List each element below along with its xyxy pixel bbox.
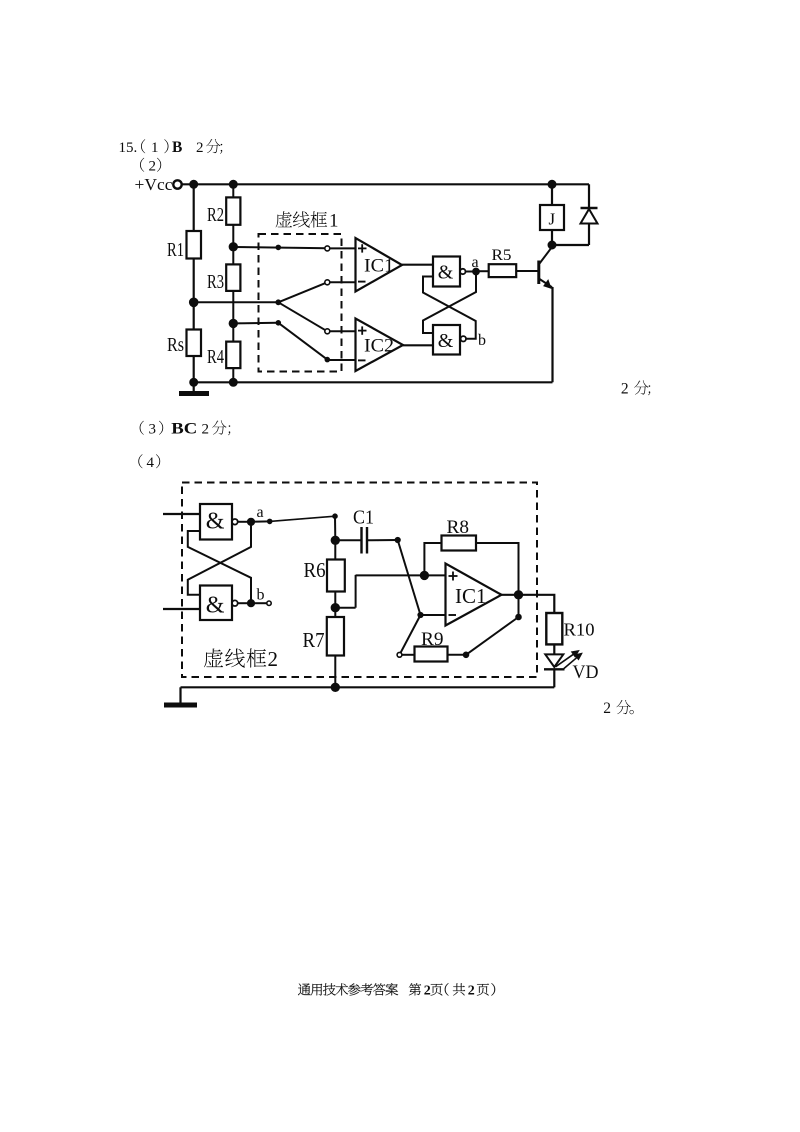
wire R3-R4 [232, 291, 234, 342]
wire output feedback vertical [518, 595, 520, 617]
wire C1 to inverting node [398, 540, 421, 615]
text answer line 15(1) [119, 139, 223, 156]
wire mid tap to split [194, 301, 279, 303]
op-amp IC2 comparator [356, 319, 404, 372]
node a2 [247, 518, 254, 525]
wire b2 stub [251, 602, 267, 604]
svg-text:VD: VD [573, 662, 599, 683]
svg-text:4: 4 [147, 455, 155, 471]
svg-text:IC2: IC2 [364, 337, 394, 357]
node output [514, 591, 522, 599]
wire b feedback [423, 277, 476, 339]
LED VD [544, 651, 582, 670]
svg-text:&: & [206, 592, 225, 618]
node bottom rail R7 [331, 683, 339, 691]
relay J [540, 205, 564, 230]
svg-text:R2: R2 [207, 204, 224, 226]
svg-text:J: J [549, 210, 556, 229]
svg-text:R10: R10 [564, 620, 595, 640]
resistor Rs [187, 330, 202, 357]
Vcc terminal [173, 180, 181, 188]
wire R1-node [193, 259, 195, 303]
dashed frame 2 [182, 483, 537, 678]
node R4 top tap [229, 319, 237, 327]
svg-text:R4: R4 [207, 346, 224, 368]
wire top supply rail [182, 183, 589, 185]
wire bubble to b2 [238, 602, 251, 604]
wire R2-R3 [232, 225, 234, 265]
svg-text:2: 2 [268, 647, 279, 671]
resistor R6 [304, 540, 345, 607]
wire a feedback [423, 272, 476, 334]
text answer line (3) [140, 420, 231, 437]
node collector [548, 241, 556, 249]
resistor R9 [402, 629, 465, 662]
wire diode top [588, 184, 590, 208]
wire inverting to R9 left [400, 615, 421, 655]
resistor R3 [226, 264, 240, 291]
svg-text:2: 2 [202, 422, 210, 438]
dashed frame 1 [259, 234, 342, 372]
wire comparator input IC1+ [233, 245, 355, 251]
node output feedback [516, 614, 522, 620]
text answer line (4) [138, 454, 160, 471]
wire a2 to C1 column [251, 514, 337, 540]
wire inverting input [421, 614, 446, 616]
wire IC2 out to gate [403, 344, 433, 346]
wire bubble to a2 [238, 521, 251, 523]
svg-text:2: 2 [424, 984, 431, 999]
node R2-R3 [229, 243, 237, 251]
resistor R1 [187, 231, 202, 259]
node R6-R7 junction [331, 604, 339, 612]
svg-text:R7: R7 [303, 628, 325, 652]
wire output to R10 [502, 595, 555, 613]
wire b2 feedback [188, 531, 251, 603]
svg-text:b: b [478, 332, 486, 349]
resistor R10 [546, 613, 594, 654]
wire input bottom gate [163, 608, 200, 610]
resistor R4 [226, 342, 240, 369]
op-amp IC1 (2) [446, 564, 502, 626]
svg-text:R5: R5 [492, 247, 512, 264]
wire a to R5 [476, 270, 489, 272]
svg-text:R6: R6 [304, 558, 326, 582]
node C1 right [395, 537, 400, 542]
svg-text:b: b [257, 587, 265, 604]
svg-text:&: & [206, 508, 225, 534]
wire collector to diode bottom [552, 244, 589, 246]
svg-text:R1: R1 [167, 239, 184, 261]
node a [473, 268, 480, 275]
svg-text:&: & [438, 330, 454, 352]
svg-text:B: B [172, 139, 182, 156]
node Vcc-R1 [190, 180, 198, 188]
svg-text:2: 2 [603, 700, 611, 717]
node R1-Rs [189, 298, 198, 307]
node ground rail left [190, 378, 198, 386]
wire R5 to base [516, 270, 538, 272]
wire R1 top [193, 184, 195, 231]
svg-text:R8: R8 [447, 517, 470, 538]
node rail-relay [548, 180, 556, 188]
svg-text:2: 2 [149, 159, 157, 175]
node bottom rail R4 [229, 378, 237, 386]
wire Rs bottom [193, 356, 195, 382]
terminal b2 [267, 601, 271, 605]
text answer line (2) [140, 158, 161, 175]
resistor R5 [489, 264, 517, 277]
NAND gate U2b [200, 586, 238, 621]
svg-text:2: 2 [468, 984, 475, 999]
svg-text:2: 2 [621, 381, 629, 398]
wire a2 feedback [188, 522, 251, 595]
wire input top gate [163, 513, 200, 515]
wire emitter down [551, 287, 553, 382]
wire bubble to a [466, 271, 476, 273]
wire bottom tap to IC2- [233, 321, 355, 362]
node inverting [418, 612, 423, 617]
resistor R7 [303, 608, 345, 688]
text score 2fen circuit2 [603, 700, 634, 717]
resistor R2 [226, 197, 240, 224]
wire bottom rail circuit1 [194, 381, 553, 383]
svg-text:a: a [472, 254, 479, 271]
wire IC1 out to gate [402, 264, 433, 266]
wire split to IC2+ [278, 302, 355, 334]
svg-text:1: 1 [329, 210, 339, 231]
text score 2fen circuit1 [621, 380, 650, 397]
wire R2 top [232, 184, 234, 197]
wire LED to bottom rail [553, 669, 555, 687]
wire J top [551, 184, 553, 205]
node b2 [247, 600, 254, 607]
svg-text:Rs: Rs [167, 334, 184, 356]
label dashed frame 1 [276, 210, 339, 231]
svg-text:R3: R3 [207, 271, 224, 293]
wire Rs top [193, 302, 195, 329]
NAND gate U1b [433, 325, 466, 355]
terminal R9 left [397, 652, 402, 657]
node plus input [420, 571, 428, 579]
node Vcc-R2 [229, 180, 237, 188]
transistor Q1 [539, 246, 553, 288]
wire split to IC1- [278, 280, 355, 303]
svg-text:15.: 15. [119, 140, 138, 156]
diode VD1 [581, 208, 598, 224]
node split [276, 300, 281, 305]
wire R9 to output node [466, 617, 519, 655]
svg-text:BC: BC [171, 421, 197, 438]
svg-text:IC1: IC1 [364, 257, 394, 277]
wire diode bottom [588, 224, 590, 246]
ground circuit 2 [164, 687, 197, 705]
ground circuit 1 [179, 382, 209, 393]
svg-text:R9: R9 [421, 629, 444, 650]
wire bottom rail circuit2 [181, 686, 555, 688]
node R9 right [463, 652, 469, 658]
wire noninverting input [335, 575, 445, 608]
wire collector up to J [551, 230, 553, 245]
svg-text:&: & [438, 261, 454, 283]
op-amp IC1 comparator [356, 238, 403, 292]
label dashed frame 2 [204, 647, 278, 671]
svg-text:2: 2 [196, 140, 204, 156]
NAND gate U1a [433, 257, 465, 287]
svg-text:C1: C1 [353, 507, 374, 529]
capacitor C1 [335, 507, 397, 554]
svg-text:a: a [257, 504, 264, 521]
svg-text:IC1: IC1 [455, 584, 487, 608]
svg-text:3: 3 [149, 422, 157, 438]
resistor R8 [424, 517, 518, 595]
node C1-R6 junction [331, 536, 339, 544]
svg-text:1: 1 [151, 140, 159, 156]
footer page label [298, 983, 495, 998]
NAND gate U2a [200, 504, 238, 540]
svg-text:+Vcc: +Vcc [135, 175, 173, 194]
wire R4 bottom [232, 368, 234, 382]
